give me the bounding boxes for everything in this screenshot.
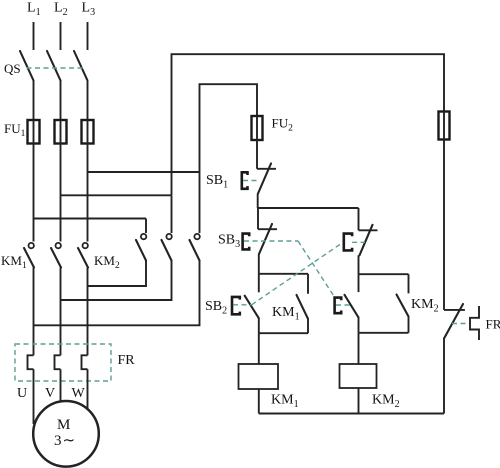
contactor KM2 main contact pole 1: [136, 234, 146, 261]
thermal relay FR heater element 1: [28, 355, 34, 369]
wire node C horizontal: [259, 332, 308, 334]
contactor KM1 main contact pole 1: [24, 243, 34, 268]
wire SB3 to node B: [258, 254, 260, 274]
contactor KM2 main label: [94, 253, 120, 271]
button SB3 NO start contact (reverse branch): [335, 274, 359, 317]
contactor KM2 main contact pole 2: [162, 234, 172, 261]
node U label: [17, 386, 27, 401]
contactor KM2 latch contact label: [411, 297, 439, 315]
thermal relay FR label: [118, 353, 136, 368]
wire SB2 to node C: [258, 318, 260, 333]
mechanical link SB3 to reverse-branch NO contact dashed: [298, 241, 335, 297]
contactor KM1 main label: [1, 253, 27, 271]
wire L2 lead-in: [60, 22, 62, 50]
fuse FU1 pole 2: [55, 120, 67, 144]
wire FU1 to KM1 phase 3: [87, 144, 89, 242]
wire bottom rail: [259, 413, 444, 415]
wire node B horizontal to KM1 latch: [259, 273, 308, 275]
switch QS pole 1 blade: [20, 51, 34, 81]
wire KM2 coil to bottom rail: [358, 388, 360, 414]
fuse control right rail: [439, 112, 450, 140]
contactor KM1 latch contact label: [272, 305, 300, 323]
switch QS pole 2 blade: [47, 51, 61, 81]
svg-text:FR: FR: [118, 353, 136, 368]
wire U to motor: [33, 369, 35, 424]
wire QS to FU1 phase 1: [33, 81, 35, 121]
thermal relay FR heater element 2: [55, 355, 61, 369]
thermal relay FR box dashed: [15, 344, 111, 381]
wire node A horizontal: [258, 207, 359, 209]
wire control feed up from phase 2 tap to top rail: [172, 54, 445, 195]
wire V to motor: [60, 369, 62, 406]
wire node A down to SB3 NC: [257, 208, 259, 229]
wire KM2 pole 1 output crossover to W line: [88, 261, 147, 287]
switch QS pole 3 blade: [74, 51, 88, 81]
wire node B' horizontal to KM2 latch: [359, 273, 409, 275]
button SB1 label: [206, 173, 228, 191]
wire QS to FU1 phase 3: [87, 81, 89, 121]
wire SB1 to node A: [257, 194, 259, 209]
button SB2 label: [205, 299, 227, 317]
wire to node B': [358, 255, 360, 274]
wire node C' horizontal: [359, 332, 409, 334]
switch QS mechanical link dashed: [27, 67, 85, 69]
node V label: [45, 386, 55, 401]
contactor KM1 main contact pole 3: [78, 243, 88, 268]
node L3 label: [82, 1, 96, 19]
wire FU1 to KM1 phase 2: [60, 144, 62, 242]
wire node C to KM1 coil: [258, 333, 260, 364]
fuse FU1 label: [4, 121, 26, 139]
mechanical link SB2 to reverse-branch NC contact dashed: [252, 242, 343, 304]
coil KM2: [340, 364, 377, 388]
button SB2 NO start contact (forward branch): [232, 274, 259, 318]
wire FU2 to SB1: [256, 140, 258, 169]
coil KM1 label: [271, 393, 299, 411]
contactor KM2 NO self-latch contact: [397, 274, 409, 333]
wire to node C': [358, 318, 360, 333]
svg-text:QS: QS: [4, 61, 21, 76]
wire KM1 outputs down to FR phase 1: [33, 268, 35, 356]
wire right rail down to FR contact: [443, 140, 445, 310]
wire down to KM2 pole 3: [199, 172, 201, 233]
thermal relay FR heater symbol: [470, 306, 479, 340]
svg-text:FR: FR: [486, 317, 500, 332]
motor M circle: [33, 401, 99, 467]
button SB1 stop NC contact: [242, 164, 276, 194]
contactor KM2 main contact pole 3: [190, 234, 200, 261]
contactor KM1 NO self-latch contact: [297, 274, 309, 333]
wire phase 2 branch to KM2 pole 2 and control tap: [61, 194, 172, 196]
coil KM1: [239, 364, 279, 389]
wire KM1 outputs down to FR phase 2: [60, 268, 62, 356]
wire down to KM2 pole 1: [145, 219, 147, 234]
svg-text:V: V: [45, 386, 55, 401]
thermal relay FR heater element 3: [82, 355, 88, 369]
node L2 label: [54, 1, 68, 19]
wire control feed up from phase 3 tap: [200, 84, 258, 172]
wire W to motor: [87, 369, 89, 412]
wire KM1 coil to bottom rail: [258, 389, 260, 414]
coil KM2 label: [372, 393, 400, 411]
button SB3 NC interlock contact (forward branch): [243, 224, 298, 254]
wire phase 3 branch to KM2 pole 3 and control tap: [88, 171, 200, 173]
svg-text:U: U: [17, 386, 27, 401]
button SB2 NC interlock contact (reverse branch): [344, 225, 378, 256]
node W label: [72, 386, 86, 401]
wire KM2 pole 3 output crossover to U line: [34, 261, 200, 326]
thermal relay FR NC contact label: [486, 317, 500, 332]
wire L3 lead-in: [87, 22, 89, 50]
svg-text:M: M: [57, 417, 70, 433]
button SB3 label: [218, 233, 240, 251]
svg-text:W: W: [72, 386, 86, 401]
thermal relay FR NC contact: [444, 304, 470, 339]
wire QS to FU1 phase 2: [60, 81, 62, 121]
svg-text:3∼: 3∼: [54, 433, 75, 449]
fuse FU1 pole 3: [82, 120, 94, 144]
motor 3-phase label: [54, 433, 75, 449]
contactor KM1 main contact pole 2: [51, 243, 61, 268]
wire FU1 to KM1 phase 1: [33, 144, 35, 242]
motor M label: [57, 417, 70, 433]
fuse FU2 label: [272, 116, 294, 134]
wire KM2 pole 2 output to V line: [61, 261, 172, 301]
fuse FU2: [252, 116, 263, 140]
node L1 label: [27, 1, 41, 19]
wire L1 lead-in: [33, 22, 35, 50]
wire FR contact to bottom rail: [443, 339, 445, 414]
wire KM1 outputs down to FR phase 3: [87, 268, 89, 356]
fuse FU1 pole 1: [28, 120, 40, 144]
wire node A down to SB2 NC (reverse branch): [358, 208, 360, 230]
wire node C' to KM2 coil: [358, 333, 360, 364]
wire phase 1 branch to KM2 pole 1: [34, 218, 147, 220]
wire down to KM2 pole 2: [171, 195, 173, 233]
switch QS label: [4, 61, 21, 76]
